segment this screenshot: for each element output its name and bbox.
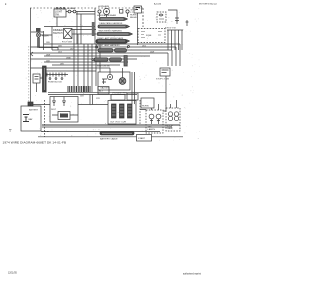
- svg-text:IGNITION SW: IGNITION SW: [97, 66, 110, 68]
- ammeter cluster box: [98, 72, 130, 90]
- battery cable bundle: [100, 132, 134, 135]
- ignition switch contact bar 1: [98, 49, 113, 52]
- svg-text:HORN AMM: HORN AMM: [98, 5, 109, 8]
- wire: sausage-area left border: [94, 8, 96, 44]
- svg-text:VOLTAGE REG: VOLTAGE REG: [112, 92, 128, 95]
- svg-text:MAIN WIRING HARNESS: MAIN WIRING HARNESS: [99, 30, 123, 33]
- flasher body: [38, 38, 40, 48]
- junction panel dashed box: [138, 29, 165, 43]
- cable stub: [92, 22, 95, 36]
- svg-text:16R: 16R: [58, 45, 62, 47]
- svg-text:16W: 16W: [150, 51, 154, 53]
- ignition terminal a: [96, 46, 98, 48]
- scan noise speckle: [26, 5, 200, 141]
- speck: [5, 4, 6, 5]
- wire: left border inner dashed: [28, 46, 30, 104]
- rear lamp dashed box: [166, 108, 180, 131]
- ammeter gauge top: [103, 8, 109, 14]
- wire stop switch drop: [165, 76, 167, 111]
- ignition switch contact bar 2: [115, 49, 127, 52]
- bottom bus dark line 1: [42, 124, 180, 126]
- wire distributor to regulator: [78, 104, 108, 106]
- wire: dashed top border: [30, 7, 143, 9]
- svg-text:LAMPS: LAMPS: [148, 128, 156, 131]
- voltage regulator box: [108, 101, 136, 125]
- bus wire 4: [31, 53, 169, 66]
- connector comb: [68, 86, 90, 92]
- svg-text:LAMP: LAMP: [167, 127, 173, 130]
- svg-text:BAT: BAT: [29, 118, 34, 121]
- cable bundle left: [43, 66, 47, 92]
- rear lamp bulb 2: [174, 112, 178, 116]
- tail lamp bulb 2: [156, 114, 161, 119]
- bottom bus line 3: [42, 131, 160, 133]
- ammeter circle: [107, 74, 112, 79]
- svg-text:16G: 16G: [58, 51, 62, 53]
- wire solid right border: [137, 13, 139, 45]
- fuse block terminals: [49, 78, 51, 80]
- ignition coil winding: [124, 56, 127, 67]
- svg-text:DASH PANEL HARNESS: DASH PANEL HARNESS: [100, 22, 123, 25]
- wire cluster right verticals: [132, 72, 135, 104]
- bus wire 3: [52, 50, 172, 66]
- svg-text:12R: 12R: [96, 98, 100, 100]
- regulator dashed right: [139, 100, 141, 124]
- regulator coil 2: [120, 104, 125, 118]
- wire battery to distributor: [33, 104, 50, 106]
- wire dimmer drops: [74, 30, 78, 87]
- head lamp box: [141, 98, 154, 108]
- wire from dimmer upper: [72, 29, 96, 31]
- arrow tick on left border: [31, 52, 34, 56]
- wire lamp feeds: [152, 100, 177, 110]
- svg-text:authorized reprint: authorized reprint: [183, 273, 201, 276]
- regulator coil 3: [128, 104, 133, 118]
- svg-text:BATTERY CABLE: BATTERY CABLE: [100, 138, 118, 141]
- ignition switch contact bar 4: [110, 58, 122, 61]
- junction box left: [33, 74, 40, 83]
- dimmer switch: [64, 29, 73, 39]
- bus wire 6: [31, 58, 138, 60]
- wire gauge labels: [46, 42, 154, 100]
- light switch housing: [54, 9, 66, 17]
- condenser 1: [52, 97, 56, 107]
- lamp socket: [126, 10, 129, 13]
- bus wire 8: [52, 64, 120, 66]
- svg-text:HORN: HORN: [142, 106, 149, 108]
- bus wire 10: [44, 70, 96, 72]
- wire battery dashed right: [44, 100, 46, 137]
- svg-text:FUSE BLOCK: FUSE BLOCK: [48, 82, 62, 84]
- connector plug: [175, 18, 179, 24]
- harness bundle 3: [97, 33, 130, 36]
- bulkhead connector pins: [167, 30, 183, 50]
- harness bundle 4: [96, 40, 127, 44]
- stray mark: [9, 130, 12, 132]
- svg-text:HI BEAM: HI BEAM: [67, 7, 76, 10]
- bus wire 7: [44, 61, 128, 63]
- wire inside: [52, 114, 78, 116]
- tail lamp dashed box: [146, 110, 163, 133]
- condenser 2: [62, 97, 66, 107]
- ignition terminal b: [128, 46, 130, 48]
- svg-text:CUT VOLT CUR: CUT VOLT CUR: [110, 122, 126, 124]
- small switch symbol: [186, 20, 189, 26]
- wire from flasher: [39, 35, 58, 50]
- wire top right: [168, 10, 177, 22]
- distributor box: [50, 97, 78, 123]
- coil box: [58, 112, 70, 120]
- wire from dimmer lower: [72, 33, 96, 35]
- alternator label box: [98, 87, 109, 95]
- rear lamp bulb 1: [168, 112, 172, 116]
- battery cell: [23, 115, 29, 122]
- wire comb drops: [90, 95, 93, 105]
- tail lamp bulb 1: [149, 114, 154, 119]
- svg-text:18W: 18W: [46, 54, 50, 56]
- fuel gauge: [119, 78, 126, 85]
- bus wire 5: [44, 55, 150, 57]
- wire bus under comb: [48, 93, 166, 95]
- junction panel ticks: [141, 32, 162, 38]
- light switch top terminals: [56, 8, 58, 10]
- starter box: [137, 135, 152, 142]
- svg-text:SWITCH: SWITCH: [53, 32, 63, 35]
- harness bundle 2: [98, 25, 127, 28]
- battery terminal blob: [28, 102, 33, 106]
- svg-text:B R G Y W: B R G Y W: [165, 28, 177, 30]
- svg-text:18G: 18G: [142, 45, 146, 47]
- stop light switch: [160, 68, 170, 76]
- bus wire 2: [31, 47, 177, 66]
- svg-text:HORN: HORN: [130, 15, 137, 17]
- wire vertical from lamp row: [100, 13, 128, 17]
- battery box: [21, 106, 41, 131]
- svg-text:1974 WIRE DIAGRAM-668ET DK 14-: 1974 WIRE DIAGRAM-668ET DK 14-01-FB: [3, 141, 67, 145]
- terminal block: [120, 10, 123, 14]
- svg-text:FOOT DIM: FOOT DIM: [62, 42, 72, 44]
- wire verticals center: [84, 44, 100, 92]
- light switch terminal B: [73, 10, 76, 13]
- wire: left border: [30, 8, 32, 104]
- inner box top-left: [31, 27, 95, 51]
- bus wire 1: [44, 44, 180, 66]
- svg-text:START: START: [138, 137, 146, 140]
- wire from junction: [37, 78, 43, 92]
- ignition switch contact bar 3: [94, 58, 108, 61]
- svg-text:MOTOR'S Manual: MOTOR'S Manual: [199, 4, 217, 6]
- ignition terminal c: [92, 59, 94, 61]
- bus wire 9: [31, 67, 111, 69]
- horn button: [98, 10, 101, 13]
- bottom bus line 2: [42, 126, 172, 128]
- regulator coil 1: [112, 104, 117, 118]
- svg-text:RELAY: RELAY: [130, 16, 138, 19]
- cluster small parts: [102, 79, 107, 84]
- svg-text:STOP LT SW: STOP LT SW: [156, 79, 170, 81]
- turn signal flasher connector: [36, 28, 41, 32]
- wire into battery: [30, 104, 32, 106]
- light switch terminal A: [68, 10, 71, 13]
- fuse block ticks: [45, 73, 68, 77]
- turn signal flasher: [36, 33, 40, 37]
- wire from light switch: [66, 12, 95, 15]
- svg-text:A-1040: A-1040: [154, 3, 162, 6]
- bottom bus line 4: [38, 136, 183, 138]
- wire: right dashed border: [142, 8, 144, 27]
- wire into cluster: [110, 68, 123, 78]
- svg-text:DIST: DIST: [51, 109, 57, 111]
- horn relay box: [134, 6, 142, 13]
- svg-text:12/11/05: 12/11/05: [8, 273, 17, 275]
- svg-text:ALT: ALT: [99, 90, 104, 93]
- harness bundle 1: [99, 18, 125, 21]
- svg-text:18R: 18R: [60, 63, 64, 65]
- svg-text:18BK: 18BK: [66, 57, 72, 59]
- svg-text:GAUGES: GAUGES: [100, 87, 110, 90]
- wire light switch drop: [57, 12, 81, 45]
- regulator aux box 2: [127, 93, 138, 100]
- svg-text:FUSE: FUSE: [146, 35, 152, 37]
- junction block dashed box: [157, 12, 166, 22]
- regulator aux box 1: [111, 95, 125, 101]
- svg-text:BATTERY: BATTERY: [29, 109, 39, 112]
